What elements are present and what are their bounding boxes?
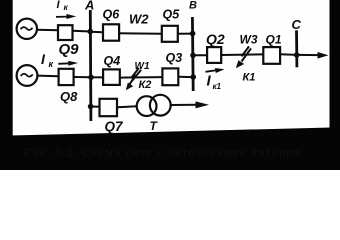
breaker Q4 xyxy=(103,69,120,85)
svg-text:Q3: Q3 xyxy=(166,51,183,65)
generator G1 xyxy=(17,19,37,39)
svg-text:Q7: Q7 xyxy=(105,119,125,134)
svg-text:к1: к1 xyxy=(213,82,222,91)
svg-text:К2: К2 xyxy=(139,79,152,91)
bus C xyxy=(295,30,298,67)
wire G1 to Q9 xyxy=(37,29,59,31)
breaker Q7 xyxy=(100,99,118,116)
wire Q5 to bus B xyxy=(178,33,193,35)
node bus A row1 xyxy=(87,29,93,35)
svg-text:Q1: Q1 xyxy=(266,32,282,46)
wire Q2 to Q1 (W3 line) xyxy=(221,53,263,56)
breaker Q3 xyxy=(162,68,178,85)
svg-text:Рис. 3.1. Схема сети с источни: Рис. 3.1. Схема сети с источниками питан… xyxy=(24,147,301,159)
svg-text:Q4: Q4 xyxy=(104,54,121,68)
svg-text:Q8: Q8 xyxy=(60,89,78,104)
svg-text:к: к xyxy=(49,59,54,69)
bus A xyxy=(89,10,92,121)
current arrow Ik top xyxy=(56,14,76,19)
node bus B row2 xyxy=(190,74,196,80)
svg-text:W2: W2 xyxy=(129,12,149,27)
label Ik lower xyxy=(41,51,54,69)
node bus B row1 xyxy=(190,31,196,37)
svg-text:Q2: Q2 xyxy=(206,31,225,47)
wire W2 line Q6 to Q5 xyxy=(119,32,162,34)
fault K1 bolt xyxy=(236,46,251,68)
wire bus B to Q2 xyxy=(193,54,207,56)
breaker Q8 xyxy=(59,69,74,85)
outgoing feeder arrow from bus C xyxy=(297,52,329,59)
breaker Q5 xyxy=(162,26,178,42)
current arrow Ik lower xyxy=(58,61,78,66)
wire bus A to Q4 xyxy=(91,76,104,78)
svg-text:Q6: Q6 xyxy=(103,7,121,21)
svg-text:К1: К1 xyxy=(243,72,256,84)
svg-text:B: B xyxy=(189,0,197,12)
right page border band xyxy=(330,0,340,170)
svg-text:Q5: Q5 xyxy=(163,7,181,21)
transformer T xyxy=(137,95,171,116)
svg-text:C: C xyxy=(292,17,302,32)
left page border band xyxy=(0,0,13,140)
wire Q3 to bus B xyxy=(178,76,193,78)
node bus B feeder xyxy=(190,53,196,59)
breaker Q6 xyxy=(103,24,119,40)
svg-text:A: A xyxy=(84,0,94,13)
wire W1 line Q4 to Q3 xyxy=(120,76,163,79)
bus B xyxy=(191,17,195,91)
svg-text:W3: W3 xyxy=(240,33,258,47)
generator G2 xyxy=(17,65,38,86)
wire Q7 to transformer T xyxy=(117,105,137,108)
label Ik top xyxy=(57,0,69,12)
breaker Q1 xyxy=(263,47,280,64)
svg-text:Q9: Q9 xyxy=(59,41,80,58)
wire bus A to Q6 xyxy=(91,31,104,34)
svg-text:к: к xyxy=(64,2,69,12)
wire bus A to Q7 xyxy=(91,106,100,108)
label Ik1 with arrow xyxy=(206,68,225,91)
wire G2 to Q8 xyxy=(37,75,58,78)
wire Q8 to bus A xyxy=(74,76,91,78)
node bus C xyxy=(294,52,300,58)
wire Q1 to bus C xyxy=(280,53,297,56)
outgoing arrow from transformer xyxy=(171,101,209,108)
wire Q9 to bus A xyxy=(73,30,91,33)
fault K2 bolt xyxy=(126,68,141,90)
node bus A row2 xyxy=(88,75,94,81)
breaker Q9 xyxy=(58,25,73,40)
bottom black band xyxy=(0,127,340,170)
node bus A row3 xyxy=(88,104,94,110)
breaker Q2 xyxy=(207,47,221,63)
